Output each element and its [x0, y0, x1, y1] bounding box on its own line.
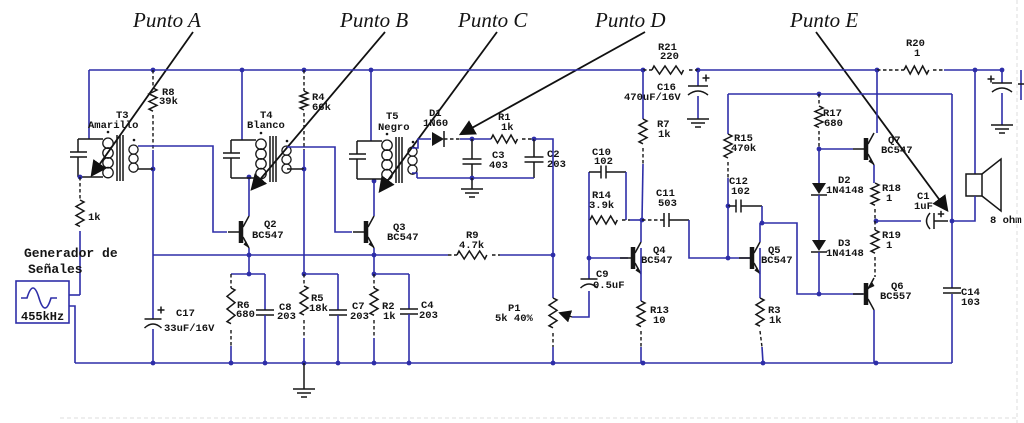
junction Q2 emitter [247, 253, 252, 277]
label 455kHz [21, 310, 64, 324]
svg-text:BC547: BC547 [387, 232, 419, 244]
svg-text:10: 10 [653, 315, 666, 327]
label T4 [247, 110, 285, 132]
svg-text:18k: 18k [309, 303, 328, 315]
resistor R4 [300, 70, 308, 169]
wire Q5 emitter to R3 [759, 248, 761, 298]
capacitor C9 [581, 258, 598, 288]
resistor R15 [724, 94, 732, 206]
arrow to node C [380, 32, 497, 191]
wire Q7 emitter to R18 [873, 165, 875, 183]
wire Q3 collector to T5 tank [373, 181, 375, 216]
capacitor C10 [589, 166, 626, 179]
label R21 [658, 42, 679, 63]
wire R8 node down to emitter rail [152, 169, 154, 255]
wire detector output down [534, 139, 553, 298]
wire C10/R14 left leg [588, 172, 590, 258]
wire detector node [460, 138, 491, 140]
wire Q4 emitter to R13 [640, 248, 642, 301]
junction R5 bar [302, 272, 307, 277]
wire generator to 1k [69, 294, 80, 296]
wire Q3 emitter to rail [373, 248, 375, 274]
junction output node [874, 219, 879, 224]
resistor R14 [590, 216, 630, 224]
svg-text:1N4148: 1N4148 [826, 248, 864, 260]
junction detector node [470, 137, 475, 142]
label C11 [656, 188, 677, 210]
svg-text:C17: C17 [176, 308, 195, 320]
svg-text:102: 102 [594, 156, 613, 168]
wire rail to Q7 collector [876, 70, 878, 133]
ground (C16) [687, 119, 709, 127]
svg-text:203: 203 [419, 310, 438, 322]
resistor R19 [871, 221, 879, 277]
svg-text:1uF: 1uF [914, 201, 933, 213]
resistor R1 [491, 135, 534, 143]
capacitor C11 [642, 213, 689, 227]
label R5 [309, 293, 328, 315]
wire Q5 collector [759, 223, 761, 242]
capacitor C14 [943, 221, 961, 363]
svg-text:455kHz: 455kHz [21, 310, 64, 324]
svg-text:103: 103 [961, 297, 980, 309]
svg-text:39k: 39k [159, 96, 178, 108]
wire Q7 base [819, 148, 853, 150]
diode D2 [811, 149, 827, 240]
label C7 [350, 301, 369, 323]
page boundary (bottom) [60, 417, 1017, 419]
resistor 1k (input bias) [76, 177, 84, 295]
wire Q4 collector [640, 220, 642, 242]
wire C12 to Q5 collector node [761, 206, 763, 223]
svg-text:0.5uF: 0.5uF [593, 280, 625, 292]
junction diode bottom [817, 292, 822, 297]
label R1 [498, 112, 514, 134]
node label Punto A [132, 8, 201, 32]
svg-text:Punto D: Punto D [594, 8, 666, 32]
junction emitter rail right [551, 253, 556, 258]
junction T5 tank bottom [372, 179, 377, 184]
svg-text:BC557: BC557 [880, 291, 912, 303]
junction T3 tank bottom [78, 175, 83, 180]
transformer T5 [349, 133, 417, 183]
wire +V top rail [89, 69, 1002, 71]
label C12 [729, 176, 750, 198]
wire rail drop to T4 tank [241, 70, 243, 140]
label C2 [547, 149, 566, 171]
label 8 ohm [990, 215, 1022, 227]
junction Q7 base node [817, 147, 822, 152]
wire P1 wiper to C9 [572, 291, 589, 317]
resistor R7 [639, 70, 647, 220]
label Q6 [880, 281, 912, 303]
wire speaker to C1 node [952, 196, 975, 221]
label Q3 [387, 222, 419, 244]
svg-text:3.9k: 3.9k [589, 200, 614, 212]
junction R1 out [532, 137, 537, 142]
wire Q2 emitter to rail [248, 248, 250, 274]
capacitor C12 [728, 200, 762, 213]
wire C10/R14 right leg [625, 172, 627, 220]
label C3 [489, 150, 508, 172]
svg-text:220: 220 [660, 51, 679, 63]
label Q5 [761, 245, 793, 267]
svg-text:503: 503 [658, 198, 677, 210]
junction C1 output node [950, 219, 955, 224]
label C1 [914, 191, 933, 213]
capacitor C4 [400, 274, 418, 363]
transistor Q5 [739, 242, 760, 274]
svg-text:Punto E: Punto E [789, 8, 858, 32]
junction T3 secondary bottom [151, 167, 156, 172]
transistor Q6 (PNP) [853, 278, 875, 310]
diode D1 [432, 131, 460, 147]
transistor Q7 [853, 133, 874, 165]
svg-text:1k: 1k [769, 315, 782, 327]
diode D3 [811, 240, 827, 294]
wire T5 secondary to detector [412, 139, 431, 148]
wire rail drop to T3 tank [88, 70, 90, 139]
svg-text:203: 203 [547, 159, 566, 171]
transistor Q3 [353, 216, 374, 248]
wire C1 node up to feedback [951, 94, 953, 221]
svg-text:Punto C: Punto C [457, 8, 528, 32]
resistor R8 [149, 70, 157, 169]
label R3 [768, 305, 782, 327]
ground (detector) [461, 178, 483, 197]
svg-text:102: 102 [731, 186, 750, 198]
svg-text:Punto A: Punto A [132, 8, 201, 32]
svg-text:Punto B: Punto B [339, 8, 408, 32]
wire Q6 collector to ground rail [873, 310, 875, 363]
resistor R13 [637, 301, 645, 363]
label R18 [882, 183, 901, 205]
svg-text:470uF/16V: 470uF/16V [624, 92, 681, 104]
svg-text:5k 40%: 5k 40% [495, 313, 534, 325]
capacitor C7 [329, 274, 347, 363]
transistor Q4 [620, 242, 641, 274]
svg-text:203: 203 [350, 311, 369, 323]
label T3 [88, 110, 138, 132]
transformer T3 [70, 131, 138, 181]
label C10 [592, 147, 613, 168]
svg-text:BC547: BC547 [641, 255, 673, 267]
label C17 plus [158, 307, 165, 314]
capacitor C1 [876, 213, 948, 229]
svg-text:1k: 1k [88, 212, 101, 224]
svg-text:1k: 1k [383, 311, 396, 323]
label R8 [159, 87, 178, 108]
wire detector ground return [417, 177, 534, 179]
wire T4 secondary bottom [287, 168, 304, 170]
wire Q2 collector to T4 tank [248, 177, 250, 216]
page boundary (right) [1016, 0, 1018, 423]
label R20 [906, 38, 925, 60]
wire rail to speaker [974, 70, 976, 174]
svg-text:1k: 1k [501, 122, 514, 134]
capacitor C17 [145, 255, 162, 363]
wire T3 secondary bottom [138, 168, 153, 170]
junction Q4 collector node [640, 218, 645, 223]
arrow to node E [816, 32, 947, 210]
svg-text:1: 1 [914, 48, 920, 60]
ground (main) [293, 363, 315, 397]
wire T3 secondary to Q2 base [138, 146, 227, 232]
svg-text:Amarillo: Amarillo [88, 120, 138, 132]
label T5 [378, 111, 410, 134]
node label Punto E [789, 8, 858, 32]
svg-text:BC547: BC547 [881, 145, 913, 157]
wire ground rail [75, 362, 952, 364]
svg-text:Generador de: Generador de [24, 246, 118, 261]
label C4 [419, 300, 438, 322]
label Q7 [881, 135, 913, 157]
label R6 [236, 300, 255, 321]
svg-text:1N60: 1N60 [423, 118, 448, 130]
resistor R21 [643, 66, 698, 74]
junction R15 bottom [726, 204, 731, 209]
resistor R17 [815, 94, 823, 149]
label R19 [882, 230, 901, 252]
junction ground rail dots [151, 361, 879, 366]
wire T5 secondary bottom to detector return [412, 173, 417, 178]
label R7 [657, 119, 671, 141]
page edge stub (top right) [1018, 70, 1024, 100]
svg-text:66k: 66k [312, 102, 331, 114]
svg-text:1N4148: 1N4148 [826, 185, 864, 197]
junction feedback at R17 [817, 92, 822, 97]
label R17 [823, 108, 843, 130]
wire Q5 collector node to Q6 base [762, 223, 863, 294]
label R2 [382, 301, 396, 323]
junction top rail dots [151, 68, 1005, 73]
resistor R5 [300, 274, 308, 363]
label 1k [88, 212, 101, 224]
wire R4 node down to R5 bar [303, 169, 305, 274]
label C16 plus [703, 75, 710, 82]
potentiometer P1 [549, 298, 557, 363]
signal generator 455kHz box [16, 281, 69, 323]
transformer T4 [223, 132, 291, 182]
label D3 [826, 238, 864, 260]
capacitor C15 (supply, right) [992, 70, 1012, 125]
speaker [966, 159, 1001, 211]
wire emitter rail [153, 254, 553, 256]
label D2 [826, 175, 864, 197]
label C1 plus [938, 211, 944, 217]
arrow to node A [92, 32, 193, 175]
junction Q4 base node [587, 256, 592, 261]
svg-text:1: 1 [886, 193, 892, 205]
junction detector ground [470, 176, 475, 181]
label R4 [312, 92, 331, 114]
svg-text:Blanco: Blanco [247, 120, 285, 132]
label C17 [164, 308, 215, 335]
arrow to node B [252, 32, 385, 189]
wire R2/C4 top bar [374, 273, 409, 275]
capacitor C3 [463, 139, 482, 178]
junction Q3 emitter [372, 253, 377, 277]
label R9 [459, 230, 484, 252]
junction Q5 base wire [726, 256, 731, 261]
label Q4 [641, 245, 673, 267]
wire R5/C7 top bar [304, 273, 338, 275]
wire R15 node to Q5 base [727, 206, 729, 258]
label C16 [624, 82, 681, 104]
node label Punto C [457, 8, 528, 32]
capacitor C8 [256, 274, 274, 363]
label C9 [593, 269, 625, 292]
svg-text:203: 203 [277, 311, 296, 323]
resistor R9 [448, 251, 500, 259]
wire R6/C8 top bar [231, 273, 265, 275]
wire rail drop to T5 tank [370, 70, 372, 141]
arrow P1 wiper [560, 313, 572, 317]
label C8 [277, 302, 296, 323]
resistor R18 [871, 183, 879, 221]
svg-text:BC547: BC547 [252, 230, 284, 242]
resistor R2 [370, 274, 378, 363]
svg-text:Señales: Señales [28, 262, 83, 277]
transistor Q2 [228, 216, 249, 248]
svg-text:Negro: Negro [378, 122, 410, 134]
wire R14 to Q4 collector node [630, 219, 642, 221]
label Q2 [252, 219, 284, 242]
svg-text:33uF/16V: 33uF/16V [164, 323, 215, 335]
svg-text:BC547: BC547 [761, 255, 793, 267]
resistor R3 [756, 298, 764, 363]
ground (C15) [991, 125, 1013, 133]
wire feedback top [728, 93, 952, 95]
node label Punto B [339, 8, 408, 32]
label D1 [423, 108, 448, 130]
label R14 [589, 190, 614, 212]
arrow to node D [461, 32, 645, 134]
wire T4 secondary to Q3 base [287, 147, 352, 232]
wire C11 to Q5 base [689, 220, 750, 258]
label R15 [731, 133, 756, 155]
label R13 [650, 305, 669, 327]
label Generador de Senales [24, 246, 118, 277]
junction Q5 collector node [760, 221, 765, 226]
resistor R20 [877, 66, 944, 74]
node label Punto D [594, 8, 666, 32]
svg-text:470k: 470k [731, 143, 756, 155]
resistor R6 [227, 274, 235, 363]
capacitor C2 [525, 139, 544, 178]
svg-text:680: 680 [824, 118, 843, 130]
label P1 [495, 303, 534, 325]
junction T4 tank bottom [247, 175, 252, 180]
capacitor C16 [688, 70, 708, 119]
svg-text:1k: 1k [658, 129, 671, 141]
svg-text:4.7k: 4.7k [459, 240, 484, 252]
label C15 plus [988, 76, 995, 83]
label C14 [961, 287, 980, 309]
svg-text:1: 1 [886, 240, 892, 252]
svg-text:403: 403 [489, 160, 508, 172]
wire generator to ground rail [69, 306, 75, 363]
svg-text:680: 680 [236, 309, 255, 321]
junction T4 secondary bottom [302, 167, 307, 172]
wire Q4 base [589, 257, 628, 259]
